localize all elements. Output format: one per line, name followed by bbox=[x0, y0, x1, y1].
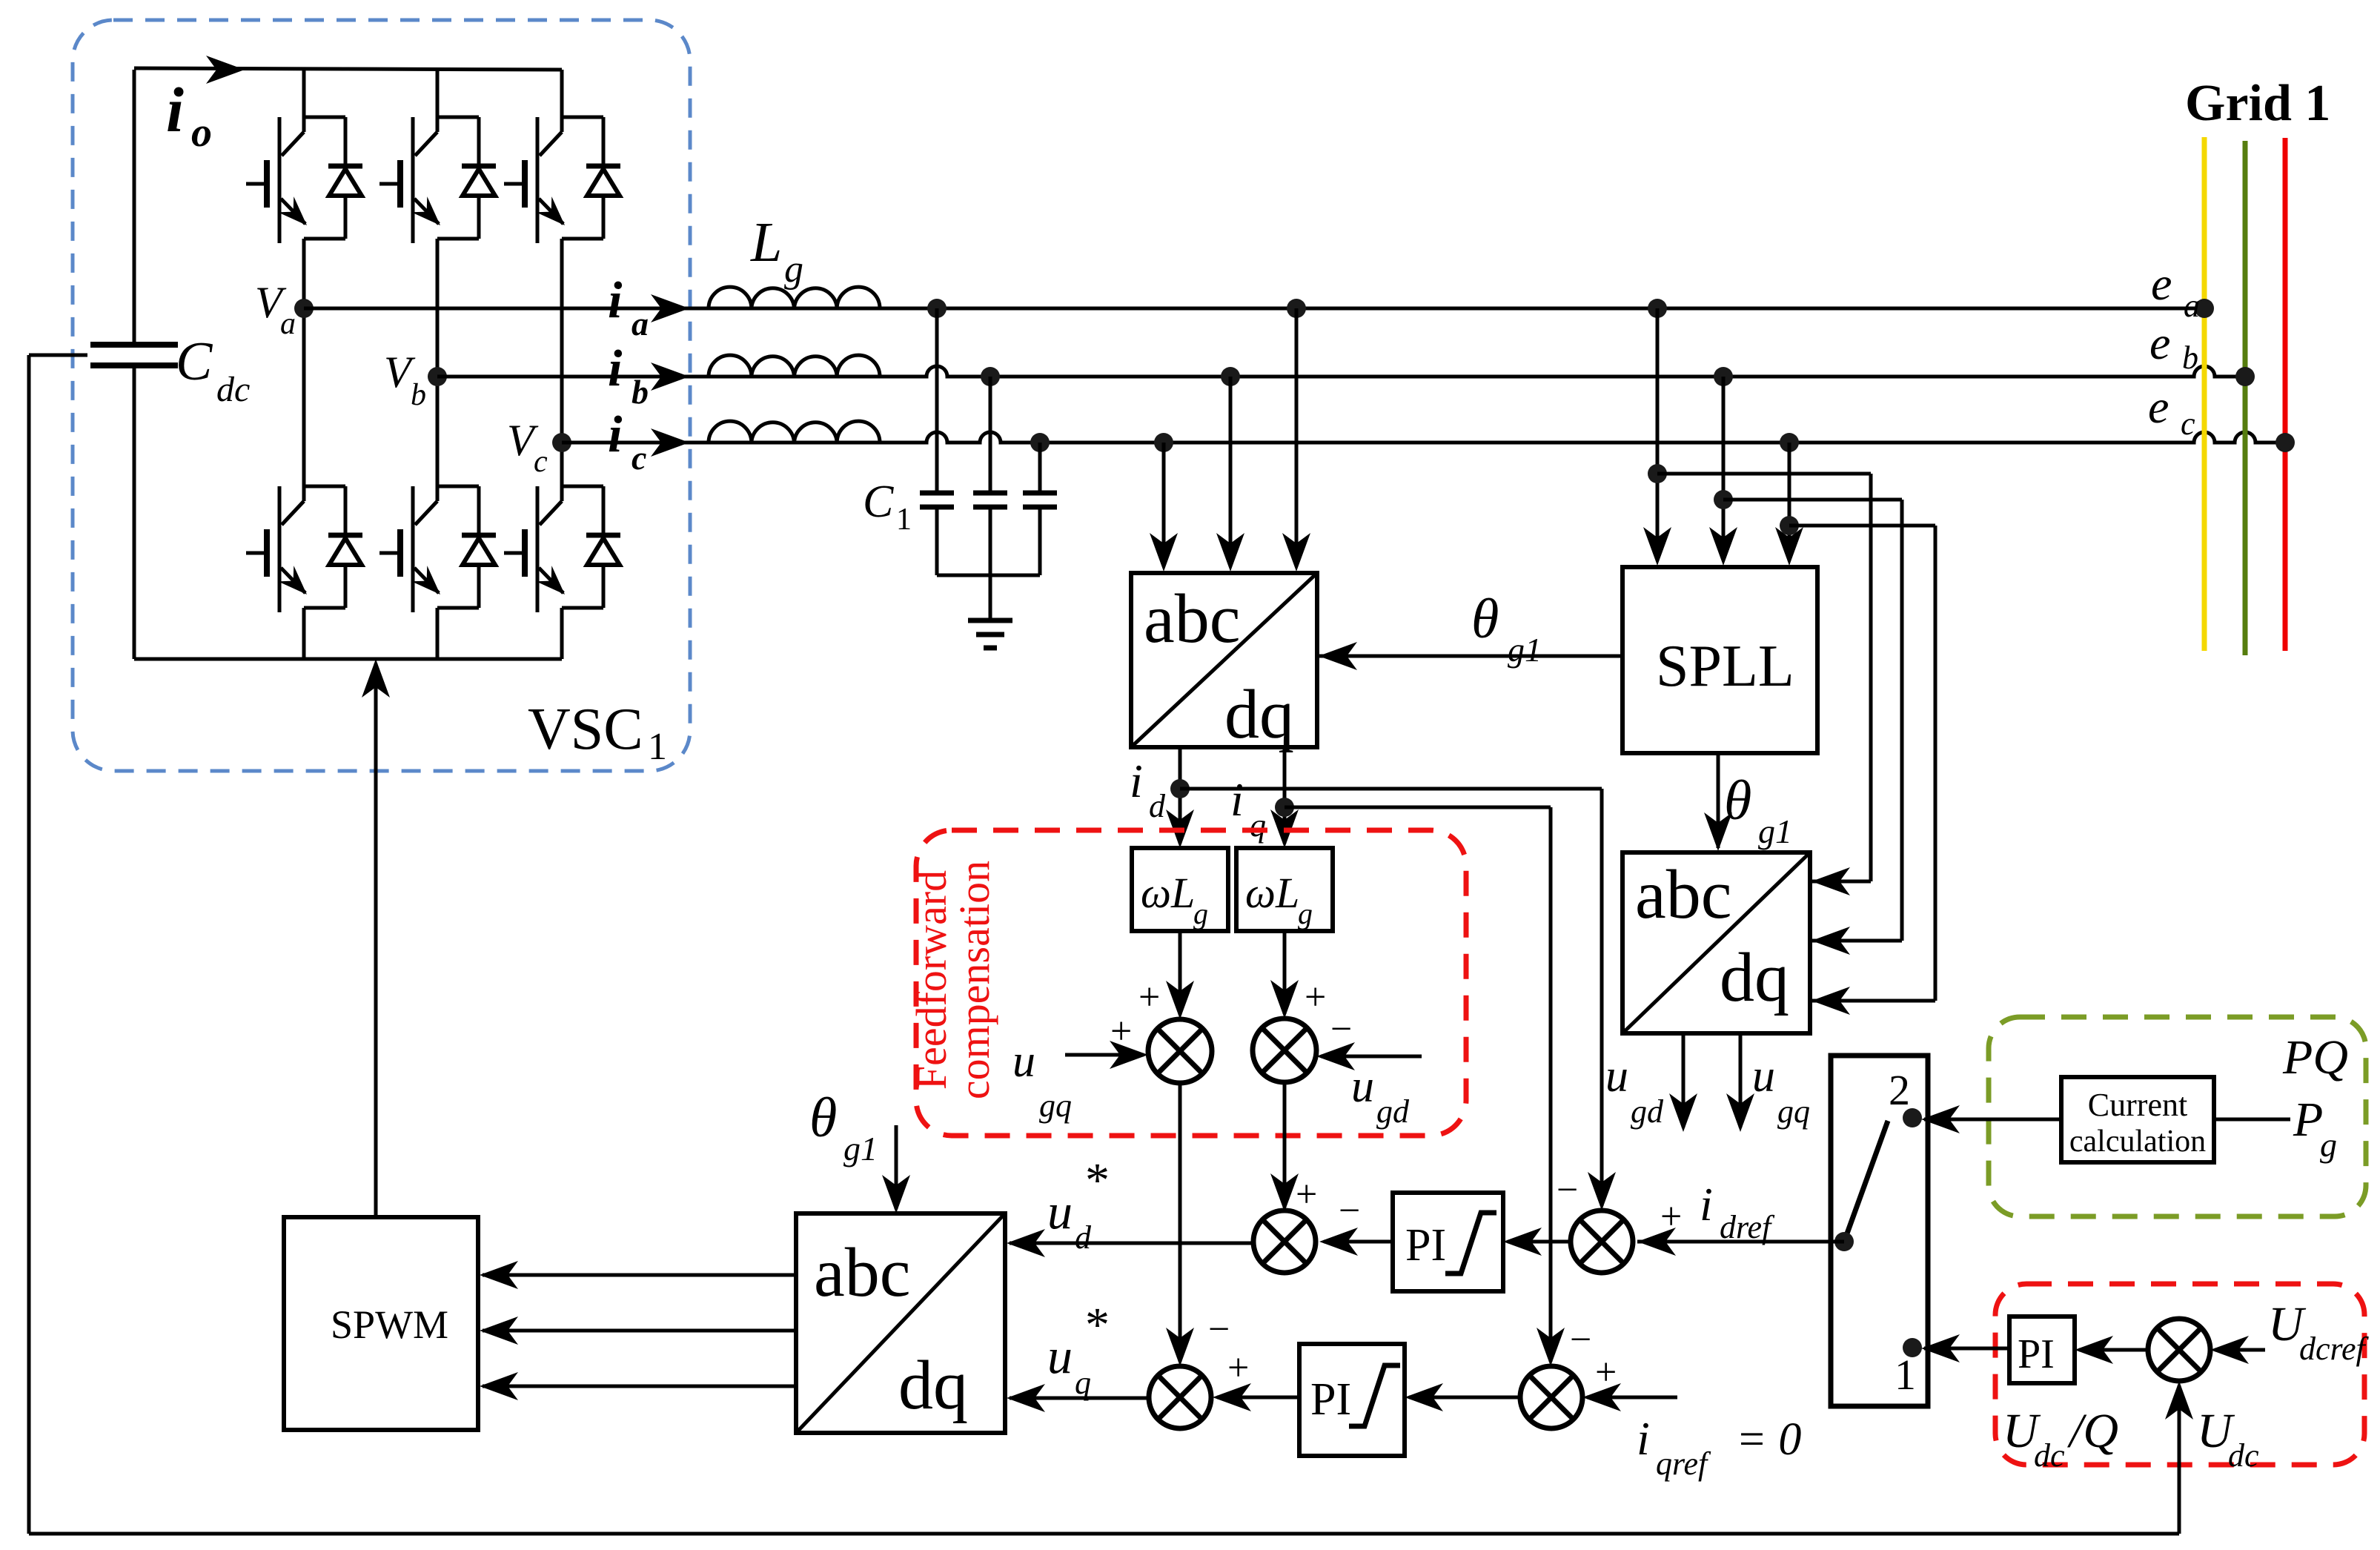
wire leg midpoint (Q3 emitter to phase node) bbox=[560, 239, 564, 443]
wire leg midpoint (Q2 emitter to phase node) bbox=[436, 239, 440, 377]
svg-text:dq: dq bbox=[1720, 939, 1789, 1016]
grid phase bus green bbox=[2243, 141, 2248, 655]
diode D5 bbox=[462, 535, 496, 565]
node Va bbox=[255, 278, 314, 341]
label Pg bbox=[2293, 1093, 2337, 1164]
wire branch eb to abcdq2 bbox=[1723, 500, 1902, 955]
svg-text:i: i bbox=[1700, 1178, 1713, 1231]
svg-text:u: u bbox=[1351, 1062, 1374, 1112]
arrow ia bbox=[651, 294, 689, 322]
igbt Q2 bbox=[379, 117, 479, 243]
svg-text:i: i bbox=[608, 340, 623, 397]
svg-text:*: * bbox=[1085, 1298, 1110, 1352]
wire phase b line bbox=[437, 366, 2245, 377]
svg-text:g1: g1 bbox=[1758, 812, 1792, 850]
label plus sign bbox=[1660, 1196, 1682, 1238]
label minus sign bbox=[1208, 1308, 1230, 1351]
svg-text:g: g bbox=[1193, 897, 1208, 930]
wire dc positive bus bbox=[134, 68, 562, 70]
label C1 bbox=[863, 477, 912, 537]
svg-text:2: 2 bbox=[1889, 1066, 1910, 1114]
summer S3 d-error bbox=[1571, 1210, 1633, 1273]
label Udc over Q bbox=[2003, 1404, 2118, 1474]
svg-text:L: L bbox=[750, 211, 782, 274]
svg-text:u: u bbox=[1047, 1183, 1073, 1239]
wire SPLL tap a bbox=[1643, 308, 1671, 566]
svg-text:i: i bbox=[1130, 755, 1143, 807]
wire leg emitter to negative bus (Q4) bbox=[302, 608, 306, 659]
svg-text:q: q bbox=[1075, 1365, 1091, 1401]
capacitor Cdc bbox=[90, 345, 178, 365]
block PI2 with saturation bbox=[1299, 1344, 1405, 1456]
label theta_g1 upper bbox=[1471, 588, 1542, 669]
diode D3 bbox=[586, 166, 620, 196]
block wLg d-axis bbox=[1132, 848, 1228, 931]
svg-text:abc: abc bbox=[1144, 580, 1240, 658]
wire iq feedback to q-error bbox=[1285, 807, 1565, 1366]
block PI1 with saturation bbox=[1393, 1193, 1503, 1291]
svg-text:u: u bbox=[1047, 1328, 1073, 1384]
wire PI3 to SW1 port1 bbox=[1921, 1334, 2009, 1362]
wire theta_g1 to abcdq3 bbox=[882, 1125, 910, 1213]
wire dc negative bus bbox=[134, 658, 562, 661]
svg-text:Current: Current bbox=[2088, 1087, 2187, 1123]
wire SPLL tap b bbox=[1709, 377, 1737, 566]
svg-text:q: q bbox=[1250, 807, 1266, 844]
svg-text:e: e bbox=[2148, 380, 2169, 433]
node Vc bbox=[507, 416, 571, 479]
igbt Q6 bbox=[504, 486, 603, 612]
svg-text:gq: gq bbox=[1777, 1093, 1810, 1130]
svg-text:+: + bbox=[1110, 1010, 1132, 1053]
label uq ref bbox=[1047, 1298, 1110, 1401]
svg-text:−: − bbox=[1339, 1190, 1360, 1232]
label plus sign bbox=[1110, 1010, 1132, 1053]
svg-text:ωL: ωL bbox=[1141, 869, 1195, 917]
node iq bbox=[1275, 798, 1294, 817]
wire PI1 to ud summer bbox=[1319, 1228, 1393, 1256]
wire phase a line bbox=[304, 307, 2204, 311]
wire S3 to PI1 bbox=[1503, 1228, 1571, 1256]
svg-text:SPLL: SPLL bbox=[1656, 634, 1794, 699]
label Cdc bbox=[176, 331, 250, 409]
Udc/Q mode dashed box bbox=[1995, 1284, 2364, 1465]
wire tap b to abcdq1 bbox=[1216, 377, 1244, 572]
wire C1 tap b bbox=[989, 377, 992, 493]
switch SW1 lever bbox=[1844, 1121, 1888, 1242]
svg-text:−: − bbox=[1570, 1319, 1591, 1361]
label plus sign bbox=[1138, 976, 1160, 1019]
svg-text:1: 1 bbox=[648, 726, 667, 768]
svg-text:c: c bbox=[534, 445, 548, 479]
svg-text:C: C bbox=[176, 331, 213, 392]
wire branch ec to abcdq2 bbox=[1789, 526, 1935, 1015]
igbt Q3 bbox=[504, 117, 603, 243]
inductor Lg phase b bbox=[709, 355, 880, 377]
label idref bbox=[1700, 1178, 1775, 1245]
node ec grid connection bbox=[2275, 433, 2295, 452]
label id bbox=[1130, 755, 1166, 824]
label minus sign bbox=[1570, 1319, 1591, 1361]
svg-text:abc: abc bbox=[814, 1234, 910, 1311]
inductor Lg phase c bbox=[709, 421, 880, 443]
node phase a current tap bbox=[1287, 299, 1306, 318]
wire C1 tap c bbox=[1038, 443, 1042, 493]
svg-text:+: + bbox=[1595, 1351, 1617, 1394]
wire Udc sense bottom run bbox=[29, 1532, 2179, 1536]
block U1 abc/dq current transform bbox=[1131, 573, 1317, 753]
wire Udc sense left drop bbox=[27, 355, 31, 1534]
node phase c C1 tap bbox=[1030, 433, 1050, 452]
wire branch ea to abcdq2 bbox=[1657, 474, 1871, 895]
svg-text:dq: dq bbox=[898, 1347, 968, 1424]
label plus sign bbox=[1595, 1351, 1617, 1394]
node phase a SPLL tap bbox=[1648, 299, 1667, 318]
svg-text:c: c bbox=[632, 439, 646, 477]
feedforward compensation dashed box bbox=[916, 830, 1466, 1136]
summer S5 q-error bbox=[1520, 1366, 1582, 1428]
diode D2 bbox=[462, 166, 496, 196]
label ugd bbox=[1605, 1051, 1664, 1130]
summer S7 dc voltage error bbox=[2148, 1319, 2210, 1381]
label minus sign bbox=[1557, 1169, 1578, 1211]
node phase b SPLL tap bbox=[1714, 367, 1733, 386]
label Udcref bbox=[2268, 1297, 2370, 1367]
label ugd bbox=[1351, 1062, 1410, 1130]
wire ud to abcdq3 bbox=[1007, 1229, 1253, 1257]
wire modulation c to SPWM bbox=[480, 1372, 796, 1400]
capacitor C1 phase a bbox=[920, 493, 954, 507]
svg-text:+: + bbox=[1296, 1173, 1317, 1216]
wire tap c to abcdq1 bbox=[1150, 443, 1178, 572]
node phase c SPLL tap bbox=[1780, 433, 1799, 452]
svg-text:dc: dc bbox=[2228, 1437, 2259, 1474]
diode D1 bbox=[328, 166, 362, 196]
wire leg collector from bus (Q3) bbox=[560, 70, 564, 132]
label theta_g1 right bbox=[1724, 769, 1792, 850]
wire PI2 to uq summer bbox=[1213, 1383, 1299, 1411]
svg-text:d: d bbox=[1149, 788, 1166, 824]
wire S1 down to uq summer bbox=[1166, 1083, 1194, 1366]
svg-text:gq: gq bbox=[1039, 1087, 1072, 1124]
svg-text:i: i bbox=[608, 406, 623, 463]
svg-text:PI: PI bbox=[1310, 1374, 1351, 1425]
wire C1 tap a bbox=[935, 308, 939, 493]
wire S7 to PI3 bbox=[2075, 1336, 2148, 1364]
svg-text:SPWM: SPWM bbox=[331, 1302, 448, 1347]
label eb bbox=[2149, 317, 2198, 376]
svg-text:dc: dc bbox=[2034, 1437, 2065, 1474]
wire wLg d-axis to summer bbox=[1166, 931, 1194, 1019]
svg-text:+: + bbox=[1138, 976, 1160, 1019]
svg-text:gd: gd bbox=[1376, 1093, 1410, 1130]
svg-text:abc: abc bbox=[1635, 856, 1731, 933]
node branch eb bbox=[1714, 490, 1733, 509]
wire C1 bottom bus bbox=[937, 507, 1040, 575]
wire Pg to current calculation bbox=[2214, 1118, 2290, 1122]
svg-text:dc: dc bbox=[216, 370, 250, 409]
wire Udcref input bbox=[2210, 1336, 2265, 1364]
block current calculation bbox=[2061, 1077, 2214, 1162]
capacitor C1 phase b bbox=[973, 493, 1007, 507]
label ib bbox=[608, 340, 649, 411]
svg-text:g1: g1 bbox=[843, 1130, 878, 1168]
block PI3 dc voltage regulator bbox=[2009, 1316, 2075, 1383]
svg-text:= 0: = 0 bbox=[1736, 1414, 1801, 1465]
node SW1 port1 bbox=[1903, 1338, 1922, 1357]
wire Udc sense rise to S7 bbox=[2165, 1381, 2193, 1534]
igbt Q1 bbox=[246, 117, 345, 243]
node phase b current tap bbox=[1221, 367, 1240, 386]
block U3 dq/abc modulation transform bbox=[796, 1213, 1005, 1433]
wire leg collector from bus (Q1) bbox=[302, 70, 306, 132]
svg-text:C: C bbox=[863, 477, 894, 527]
diode D4 bbox=[328, 535, 362, 565]
inductor Lg phase a bbox=[709, 287, 880, 308]
node SW1 port2 bbox=[1903, 1108, 1922, 1127]
svg-text:a: a bbox=[280, 307, 296, 341]
svg-text:ωL: ωL bbox=[1245, 869, 1299, 917]
node branch ec bbox=[1780, 516, 1799, 535]
wire idref from switch bbox=[1637, 1228, 1844, 1256]
wire leg (Q6 collector) bbox=[560, 443, 564, 501]
svg-text:−: − bbox=[1330, 1008, 1352, 1050]
svg-text:PI: PI bbox=[1405, 1220, 1446, 1271]
wire theta_g1 SPLL to abcdq2 bbox=[1704, 753, 1732, 851]
svg-text:θ: θ bbox=[809, 1087, 837, 1149]
svg-text:calculation: calculation bbox=[2069, 1125, 2206, 1159]
arrow ic bbox=[651, 428, 689, 457]
svg-text:e: e bbox=[2149, 317, 2170, 369]
wire ugd output bbox=[1669, 1033, 1697, 1132]
svg-text:g: g bbox=[1298, 897, 1313, 930]
svg-text:a: a bbox=[2184, 288, 2200, 324]
summer S1 (wLg id + ugq) bbox=[1148, 1019, 1212, 1083]
svg-text:+: + bbox=[1660, 1196, 1682, 1238]
svg-text:+: + bbox=[1227, 1347, 1249, 1389]
svg-text:c: c bbox=[2181, 405, 2195, 442]
svg-text:compensation: compensation bbox=[950, 861, 998, 1099]
svg-text:g: g bbox=[2320, 1126, 2337, 1164]
wire theta_g1 SPLL to abcdq1 bbox=[1319, 642, 1622, 670]
wire leg collector from bus (Q2) bbox=[436, 70, 440, 132]
svg-text:−: − bbox=[1208, 1308, 1230, 1351]
node id bbox=[1170, 779, 1190, 798]
wire leg (Q5 collector) bbox=[436, 377, 440, 501]
wire ugq input bbox=[1065, 1041, 1148, 1069]
summer S6 uq bbox=[1149, 1366, 1211, 1428]
label PQ bbox=[2282, 1030, 2348, 1084]
label iq bbox=[1230, 773, 1266, 844]
label io bbox=[166, 74, 212, 156]
wire leg midpoint (Q1 emitter to phase node) bbox=[302, 239, 306, 308]
wire current calculation to SW1 port2 bbox=[1921, 1105, 2061, 1133]
node ea grid connection bbox=[2195, 299, 2214, 318]
wire ugd input bbox=[1316, 1042, 1422, 1070]
wire id feedback to d-error bbox=[1180, 789, 1616, 1210]
svg-text:dcref: dcref bbox=[2299, 1331, 2370, 1367]
node phase c current tap bbox=[1154, 433, 1173, 452]
svg-text:1: 1 bbox=[1895, 1351, 1916, 1399]
label plus sign bbox=[1227, 1347, 1249, 1389]
svg-text:b: b bbox=[2182, 340, 2198, 376]
wire ugq output bbox=[1726, 1033, 1754, 1132]
svg-text:e: e bbox=[2151, 257, 2172, 310]
svg-text:Grid 1: Grid 1 bbox=[2185, 75, 2330, 132]
svg-text:i: i bbox=[1230, 773, 1244, 826]
label ea bbox=[2151, 257, 2200, 324]
wire leg emitter to negative bus (Q5) bbox=[436, 608, 440, 659]
PQ mode dashed box bbox=[1989, 1017, 2366, 1216]
wire modulation b to SPWM bbox=[480, 1316, 796, 1345]
svg-text:g: g bbox=[784, 248, 803, 291]
svg-text:θ: θ bbox=[1724, 769, 1751, 832]
wire iqref input bbox=[1582, 1383, 1677, 1411]
label ugq bbox=[1012, 1036, 1072, 1124]
label feedforward compensation bbox=[907, 861, 998, 1099]
svg-text:g1: g1 bbox=[1508, 631, 1542, 669]
svg-text:*: * bbox=[1085, 1153, 1110, 1208]
arrow io on dc bus bbox=[206, 56, 245, 84]
svg-text:a: a bbox=[632, 305, 649, 342]
svg-text:dq: dq bbox=[1224, 676, 1294, 753]
label VSC1 bbox=[528, 697, 667, 768]
label ud ref bbox=[1047, 1153, 1110, 1256]
svg-text:+: + bbox=[1305, 976, 1326, 1019]
label ia bbox=[608, 272, 649, 342]
svg-text:θ: θ bbox=[1471, 588, 1499, 650]
node eb grid connection bbox=[2235, 367, 2255, 386]
wire Cdc to negative bus bbox=[133, 365, 136, 659]
wire Udc sense at Cdc bbox=[29, 354, 87, 357]
label ic bbox=[608, 406, 646, 477]
wire modulation a to SPWM bbox=[480, 1261, 796, 1289]
block wLg q-axis bbox=[1236, 848, 1333, 931]
svg-text:Feedforward: Feedforward bbox=[907, 870, 955, 1090]
svg-text:u: u bbox=[1605, 1051, 1628, 1102]
svg-text:i: i bbox=[1637, 1412, 1650, 1465]
svg-text:qref: qref bbox=[1656, 1445, 1711, 1482]
label theta_g1 lower bbox=[809, 1087, 878, 1168]
wire S2 down to ud summer bbox=[1270, 1082, 1299, 1212]
switch SW1 mode selector bbox=[1831, 1056, 1928, 1406]
block SPWM bbox=[284, 1217, 478, 1430]
wire uq to abcdq3 bbox=[1007, 1384, 1149, 1412]
label plus sign bbox=[1305, 976, 1326, 1019]
wire leg (Q4 collector) bbox=[302, 308, 306, 501]
block U2 abc/dq voltage transform bbox=[1622, 852, 1810, 1033]
svg-text:gd: gd bbox=[1631, 1093, 1664, 1130]
svg-text:b: b bbox=[632, 373, 649, 411]
svg-text:/Q: /Q bbox=[2066, 1404, 2118, 1458]
node SW1 common bbox=[1834, 1232, 1854, 1251]
svg-text:dref: dref bbox=[1720, 1209, 1775, 1245]
svg-text:i: i bbox=[166, 74, 184, 145]
label ugq bbox=[1752, 1051, 1810, 1130]
svg-text:u: u bbox=[1752, 1051, 1775, 1102]
grid phase bus yellow bbox=[2202, 137, 2207, 651]
label Lg bbox=[750, 211, 803, 291]
grid phase bus red bbox=[2283, 138, 2288, 651]
svg-text:PQ: PQ bbox=[2282, 1030, 2348, 1084]
node phase b C1 tap bbox=[981, 367, 1000, 386]
diode D6 bbox=[586, 535, 620, 565]
node branch ea bbox=[1648, 464, 1667, 483]
summer S2 (wLg iq - ugd) bbox=[1253, 1019, 1316, 1082]
label iqref equals zero bbox=[1637, 1412, 1801, 1482]
svg-text:−: − bbox=[1557, 1169, 1578, 1211]
wire dc bus left drop to Cdc bbox=[133, 70, 136, 345]
label Udc bbox=[2197, 1404, 2259, 1474]
VSC1 converter dashed boundary box bbox=[73, 20, 690, 771]
wire wLg q-axis to summer bbox=[1270, 931, 1299, 1019]
summer S4 ud bbox=[1253, 1210, 1316, 1273]
node Vb bbox=[384, 348, 447, 412]
wire SPLL tap c bbox=[1775, 443, 1803, 566]
svg-text:P: P bbox=[2293, 1093, 2323, 1147]
wire phase c line bbox=[562, 432, 2285, 443]
label plus sign bbox=[1296, 1173, 1317, 1216]
wire id output bbox=[1166, 747, 1194, 848]
svg-text:1: 1 bbox=[896, 503, 912, 537]
label minus sign bbox=[1339, 1190, 1360, 1232]
svg-text:u: u bbox=[1012, 1036, 1035, 1087]
arrow ib bbox=[651, 362, 689, 391]
node phase a C1 tap bbox=[927, 299, 947, 318]
label Grid 1 bbox=[2185, 75, 2330, 132]
wire tap a to abcdq1 bbox=[1282, 308, 1310, 572]
wire S5 to PI2 bbox=[1405, 1383, 1520, 1411]
wire SPWM gate drive to VSC bbox=[362, 659, 390, 1217]
svg-text:b: b bbox=[411, 378, 426, 412]
wire leg emitter to negative bus (Q6) bbox=[560, 608, 564, 659]
svg-text:o: o bbox=[191, 110, 212, 156]
block SPLL bbox=[1622, 567, 1817, 753]
svg-text:PI: PI bbox=[2018, 1331, 2055, 1377]
label minus sign bbox=[1330, 1008, 1352, 1050]
label ec bbox=[2148, 380, 2195, 442]
svg-text:VSC: VSC bbox=[528, 697, 643, 762]
wire iq output bbox=[1270, 747, 1299, 848]
svg-text:d: d bbox=[1075, 1219, 1092, 1256]
igbt Q5 bbox=[379, 486, 479, 612]
wire ground stem bbox=[989, 575, 992, 620]
ground bbox=[968, 620, 1012, 648]
capacitor C1 phase c bbox=[1023, 493, 1057, 507]
svg-text:i: i bbox=[608, 272, 623, 329]
igbt Q4 bbox=[246, 486, 345, 612]
